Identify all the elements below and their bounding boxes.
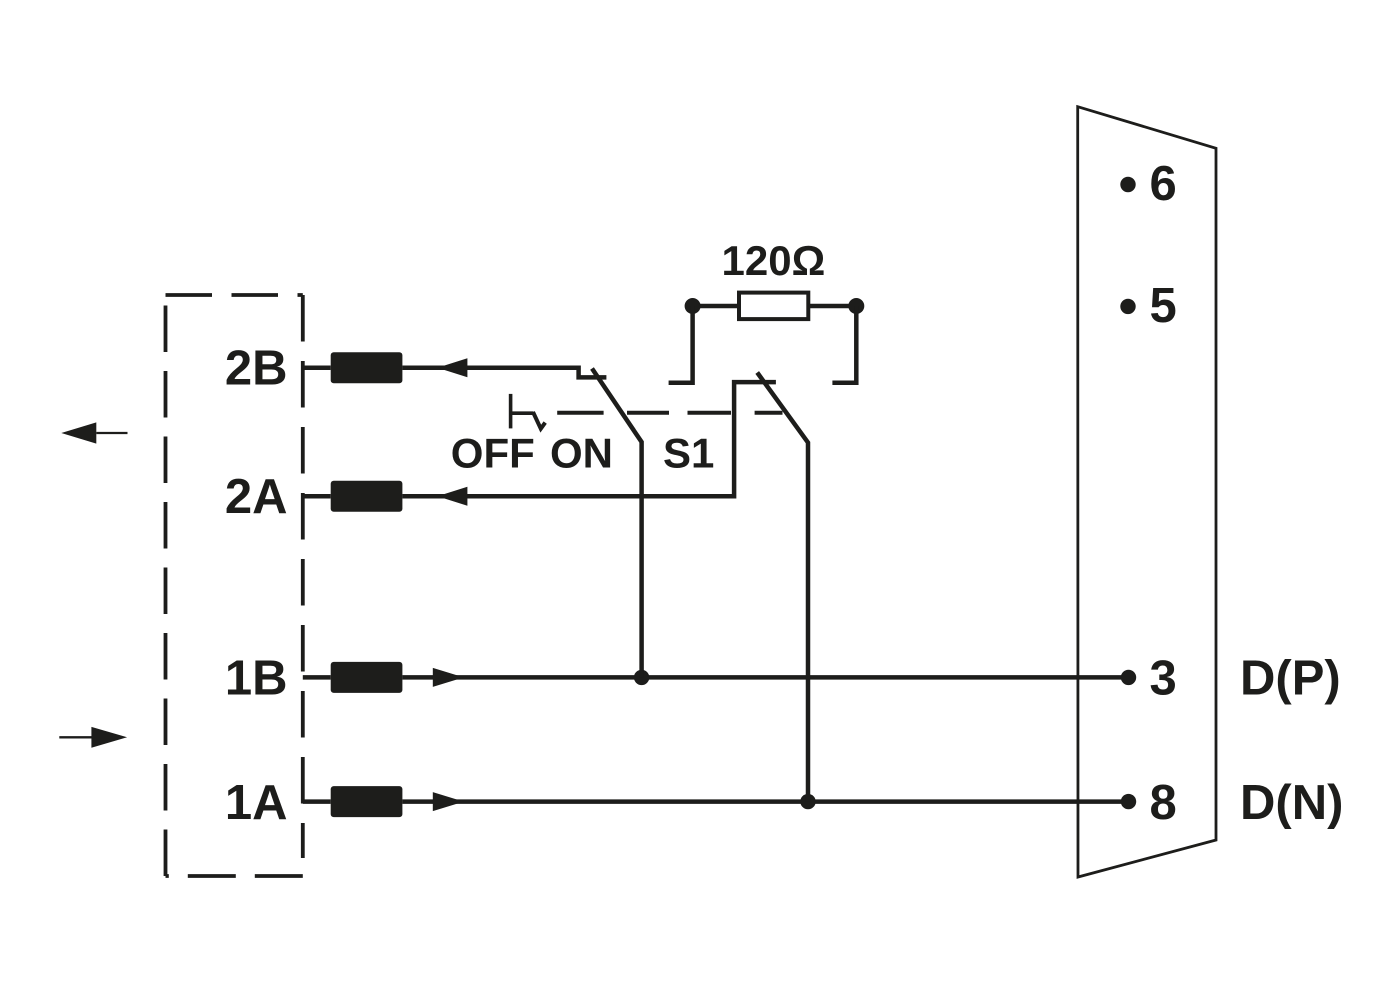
label 1A (225, 776, 288, 830)
label OFF (451, 430, 535, 477)
arrow on 2A wire (left) (437, 487, 467, 506)
pin 3 (1121, 652, 1177, 706)
svg-text:D(N): D(N) (1240, 776, 1343, 830)
svg-text:6: 6 (1150, 157, 1177, 211)
svg-text:5: 5 (1150, 279, 1177, 333)
switch S1 pole 2 blade (757, 373, 808, 802)
terminal block boundary right edge (dashed) (301, 295, 305, 858)
wire resistor right lead (808, 304, 856, 309)
wire resistor left lead (693, 304, 739, 309)
D-sub connector outline (1078, 107, 1216, 877)
terminal block boundary bottom edge (dashed) (166, 874, 303, 878)
pin 8 (1121, 776, 1177, 830)
label 120 ohm (722, 237, 826, 284)
terminal 1A (331, 786, 403, 817)
junction node on 1A (switch pole 2) (800, 794, 815, 809)
terminal block boundary left edge (dashed) (164, 295, 168, 876)
wire 2B stub (303, 365, 331, 370)
label S1 (663, 430, 714, 477)
net label D(P) (1240, 652, 1341, 706)
wire 1B to pin 3 (402, 675, 1128, 680)
wire resistor left leg to switch contact (669, 306, 693, 383)
terminal 1B (331, 662, 403, 693)
svg-text:ON: ON (550, 430, 613, 477)
label ON (550, 430, 613, 477)
terminal block boundary top edge (dashed) (166, 293, 303, 297)
svg-text:D(P): D(P) (1240, 652, 1341, 706)
svg-text:2B: 2B (225, 342, 288, 396)
switch S1 OFF position indicator (511, 394, 546, 429)
svg-text:3: 3 (1150, 652, 1177, 706)
switch S1 mechanical linkage (dashed) (557, 411, 782, 415)
wire 2A to switch riser (402, 382, 776, 496)
svg-text:1B: 1B (225, 652, 288, 706)
svg-text:OFF: OFF (451, 430, 535, 477)
wire 1A to pin 8 (402, 799, 1128, 804)
wire resistor right leg to switch contact (832, 306, 856, 383)
terminal 2A (331, 481, 403, 512)
svg-text:8: 8 (1150, 776, 1177, 830)
svg-text:2A: 2A (225, 470, 288, 524)
net label D(N) (1240, 776, 1343, 830)
outgoing direction arrow (left, outside block) (61, 422, 127, 443)
pin 5 (1120, 279, 1176, 333)
wire 1A stub (303, 799, 331, 804)
arrow on 2B wire (left) (437, 358, 467, 377)
arrow on 1A wire (right) (433, 792, 464, 811)
wire 1B stub (303, 675, 331, 680)
arrow on 1B wire (right) (433, 668, 464, 687)
svg-text:1A: 1A (225, 776, 288, 830)
label 2B (225, 342, 288, 396)
terminal 2B (331, 352, 403, 383)
label 1B (225, 652, 288, 706)
switch S1 pole 1 blade (592, 369, 642, 678)
resistor R termination 120 ohm (739, 293, 808, 320)
incoming direction arrow (right, outside block) (59, 727, 127, 748)
label 2A (225, 470, 288, 524)
svg-text:S1: S1 (663, 430, 714, 477)
junction node on 1B (switch pole 1) (634, 670, 649, 685)
wire 2A stub (303, 494, 331, 499)
node resistor right (848, 298, 864, 314)
pin 6 (1120, 157, 1176, 211)
node resistor left (685, 298, 701, 314)
wire 2B to switch (402, 368, 606, 378)
svg-text:120Ω: 120Ω (722, 237, 826, 284)
